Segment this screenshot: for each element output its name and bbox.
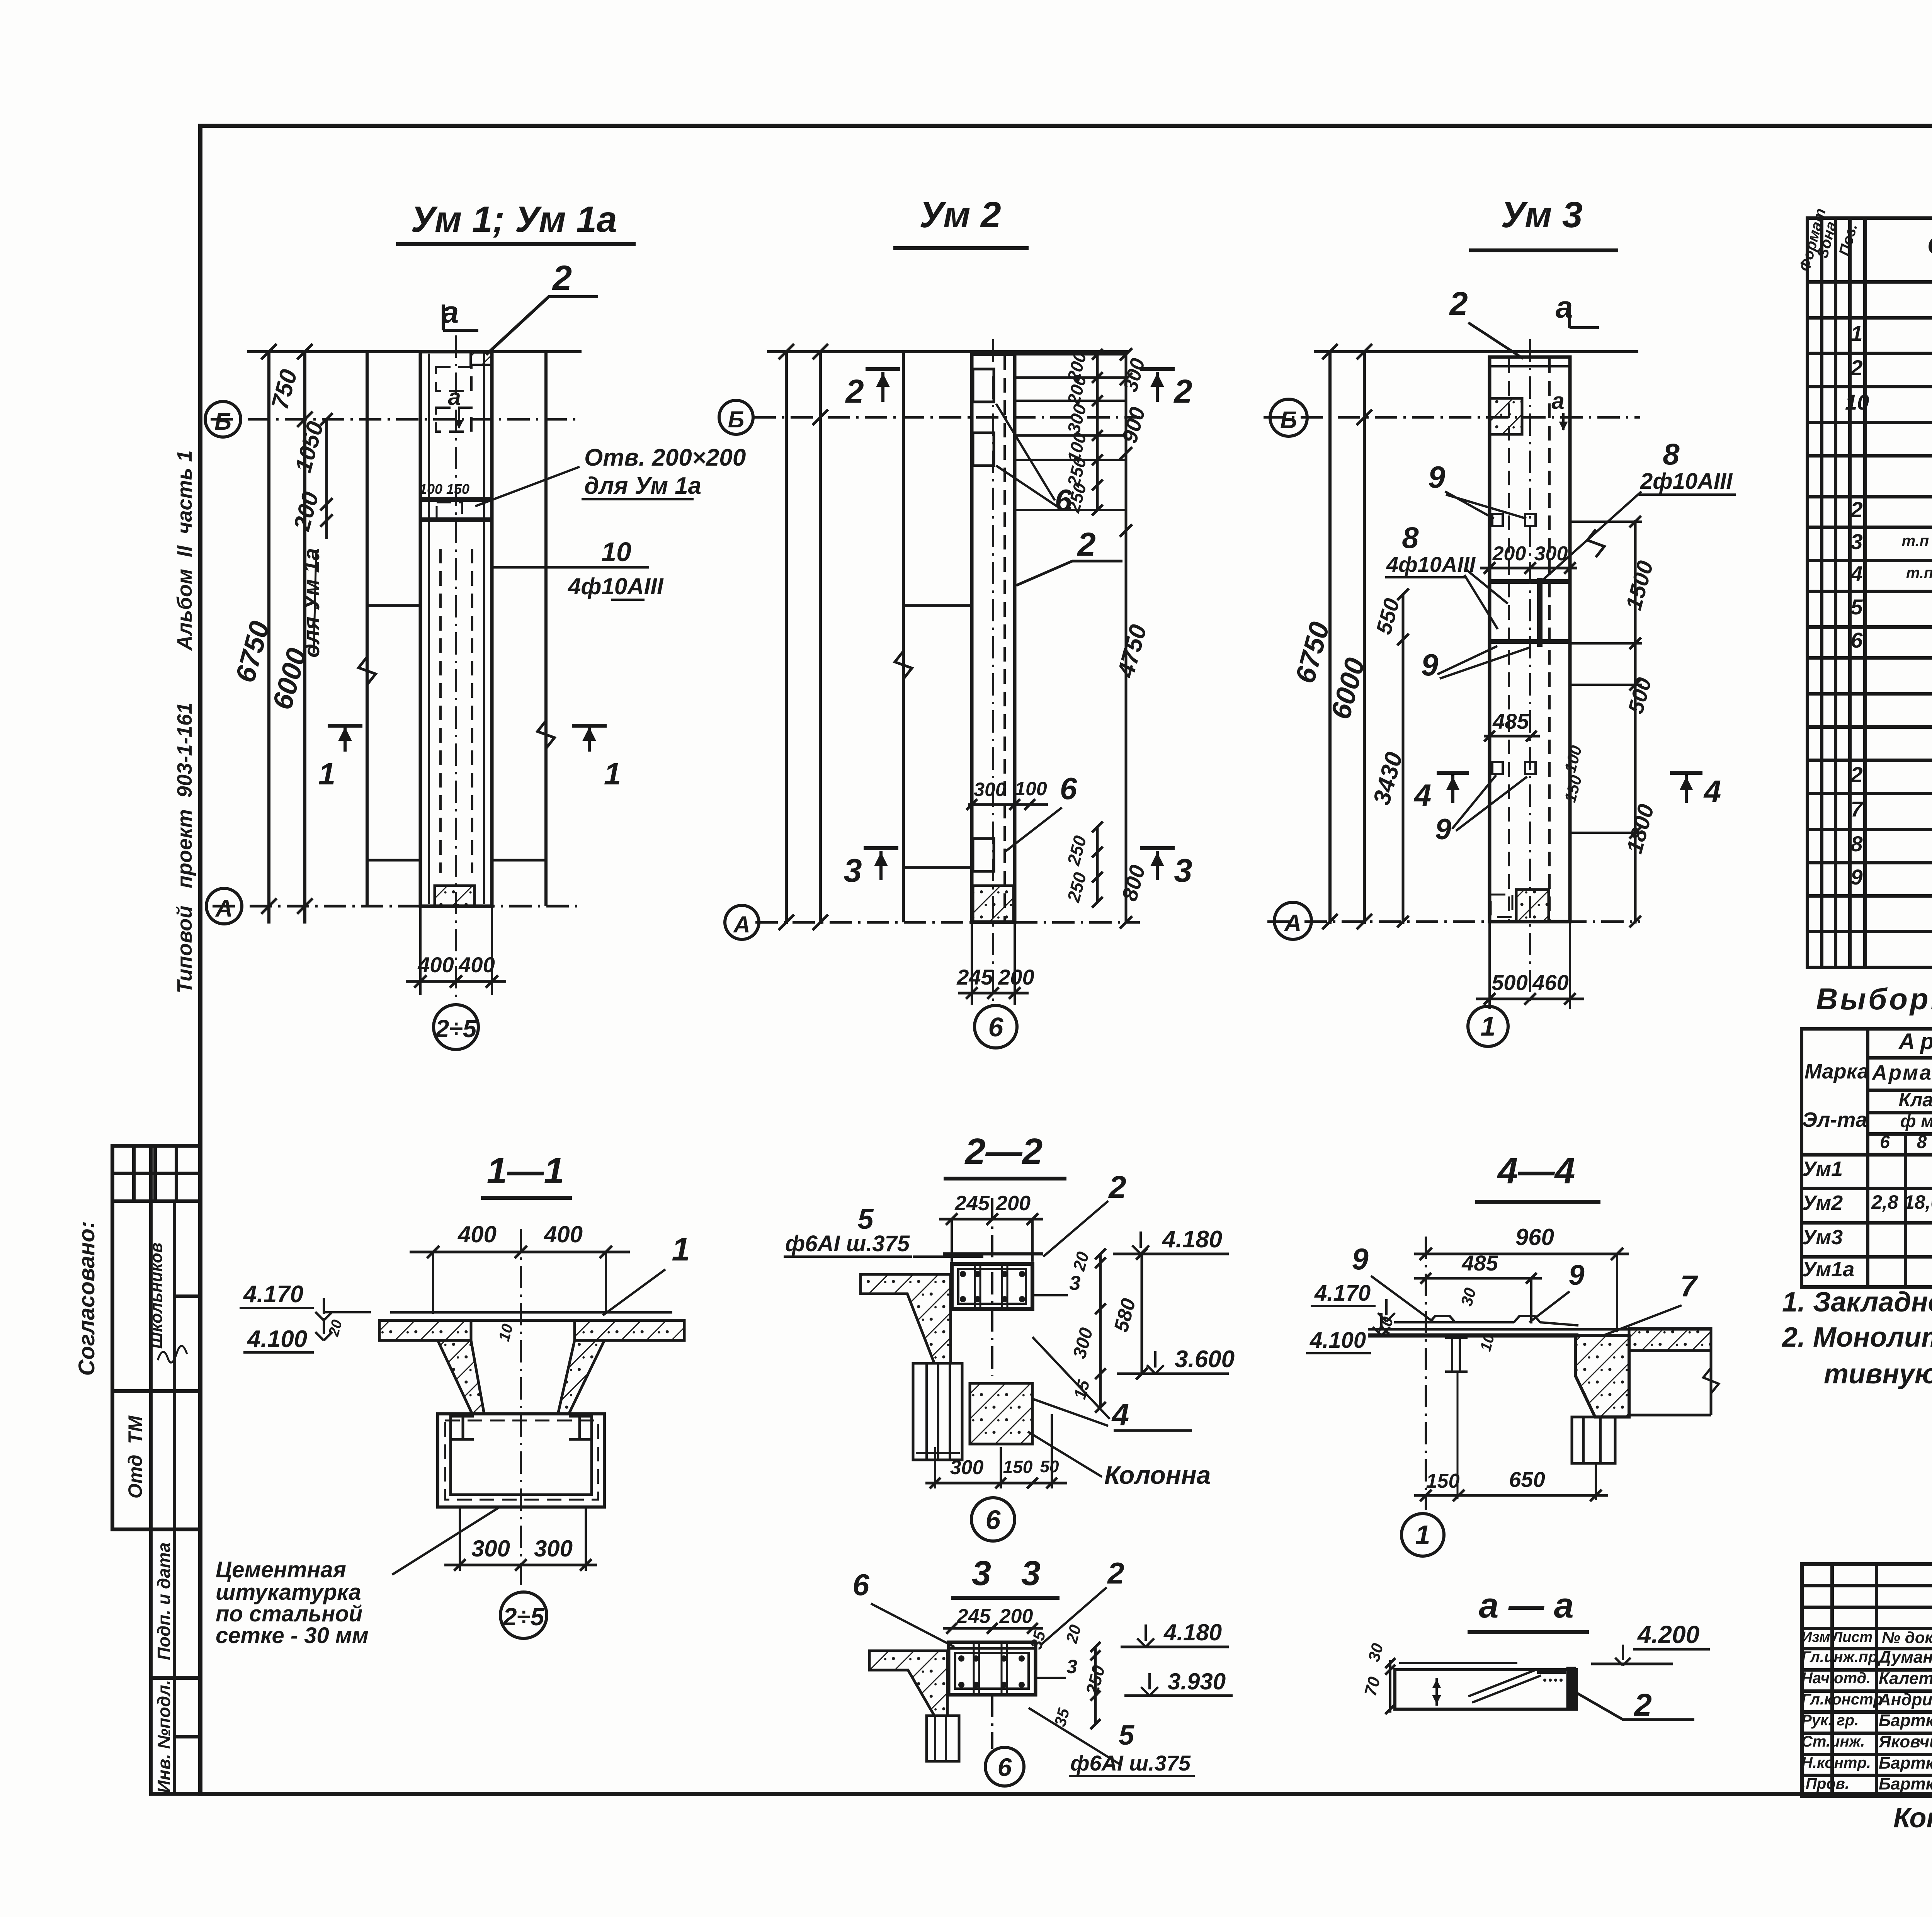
svg-text:20: 20 xyxy=(1062,1623,1085,1645)
svg-text:5: 5 xyxy=(1119,1720,1134,1751)
svg-text:30: 30 xyxy=(1364,1641,1386,1664)
svg-text:Цементная: Цементная xyxy=(216,1557,346,1582)
svg-text:245: 245 xyxy=(954,1192,990,1215)
svg-text:3: 3 xyxy=(972,1554,991,1593)
svg-text:10: 10 xyxy=(495,1322,516,1343)
svg-text:70: 70 xyxy=(1361,1675,1384,1698)
svg-text:960: 960 xyxy=(1515,1224,1554,1250)
svg-text:9: 9 xyxy=(1352,1242,1369,1276)
svg-text:150: 150 xyxy=(1426,1470,1460,1492)
svg-text:20: 20 xyxy=(1070,1250,1093,1273)
svg-text:245: 245 xyxy=(957,1605,991,1628)
svg-text:4.170: 4.170 xyxy=(1314,1281,1371,1306)
svg-text:4.180: 4.180 xyxy=(1162,1226,1222,1253)
svg-text:9: 9 xyxy=(1568,1259,1584,1291)
svg-text:6: 6 xyxy=(852,1568,869,1602)
svg-text:4.200: 4.200 xyxy=(1637,1621,1699,1648)
svg-text:200: 200 xyxy=(995,1192,1031,1215)
svg-text:35: 35 xyxy=(1051,1706,1073,1728)
svg-text:300: 300 xyxy=(950,1456,984,1479)
svg-text:а — а: а — а xyxy=(1479,1586,1573,1625)
svg-text:6: 6 xyxy=(998,1753,1012,1781)
svg-text:580: 580 xyxy=(1110,1296,1140,1334)
svg-text:1: 1 xyxy=(1415,1520,1430,1550)
svg-text:650: 650 xyxy=(1509,1467,1545,1492)
svg-text:30: 30 xyxy=(1457,1286,1479,1308)
svg-text:4.100: 4.100 xyxy=(1310,1328,1366,1353)
svg-text:300: 300 xyxy=(534,1536,573,1561)
svg-text:4.170: 4.170 xyxy=(243,1281,303,1308)
svg-text:2: 2 xyxy=(1107,1556,1124,1590)
svg-text:400: 400 xyxy=(544,1221,583,1247)
svg-text:4: 4 xyxy=(1111,1397,1129,1432)
svg-text:2: 2 xyxy=(1633,1687,1652,1723)
svg-text:1: 1 xyxy=(672,1231,690,1268)
svg-text:4.100: 4.100 xyxy=(247,1326,307,1352)
svg-text:3.600: 3.600 xyxy=(1175,1346,1235,1373)
svg-text:Колонна: Колонна xyxy=(1104,1461,1211,1489)
svg-text:3.930: 3.930 xyxy=(1168,1669,1226,1694)
svg-text:ф6АI ш.375: ф6АI ш.375 xyxy=(1070,1751,1191,1775)
svg-text:150: 150 xyxy=(1003,1457,1033,1477)
svg-text:200: 200 xyxy=(999,1605,1033,1628)
svg-text:2—2: 2—2 xyxy=(964,1131,1043,1172)
svg-text:3: 3 xyxy=(1021,1554,1041,1593)
svg-text:4—4: 4—4 xyxy=(1497,1150,1575,1191)
svg-text:2÷5: 2÷5 xyxy=(503,1603,545,1631)
svg-text:4.180: 4.180 xyxy=(1163,1619,1222,1645)
svg-text:5: 5 xyxy=(857,1203,874,1235)
svg-text:485: 485 xyxy=(1461,1251,1498,1275)
svg-text:50: 50 xyxy=(1040,1457,1059,1476)
svg-text:1—1: 1—1 xyxy=(487,1150,565,1191)
svg-text:2: 2 xyxy=(1108,1170,1126,1205)
svg-text:ф6АI ш.375: ф6АI ш.375 xyxy=(785,1231,910,1256)
svg-text:3: 3 xyxy=(1070,1272,1081,1294)
svg-text:3: 3 xyxy=(1066,1656,1077,1677)
svg-text:400: 400 xyxy=(457,1221,497,1247)
svg-text:7: 7 xyxy=(1680,1269,1698,1303)
svg-text:300: 300 xyxy=(471,1536,510,1561)
svg-text:6: 6 xyxy=(986,1505,1001,1535)
svg-text:сетке - 30 мм: сетке - 30 мм xyxy=(216,1623,369,1648)
svg-text:300: 300 xyxy=(1069,1325,1097,1361)
